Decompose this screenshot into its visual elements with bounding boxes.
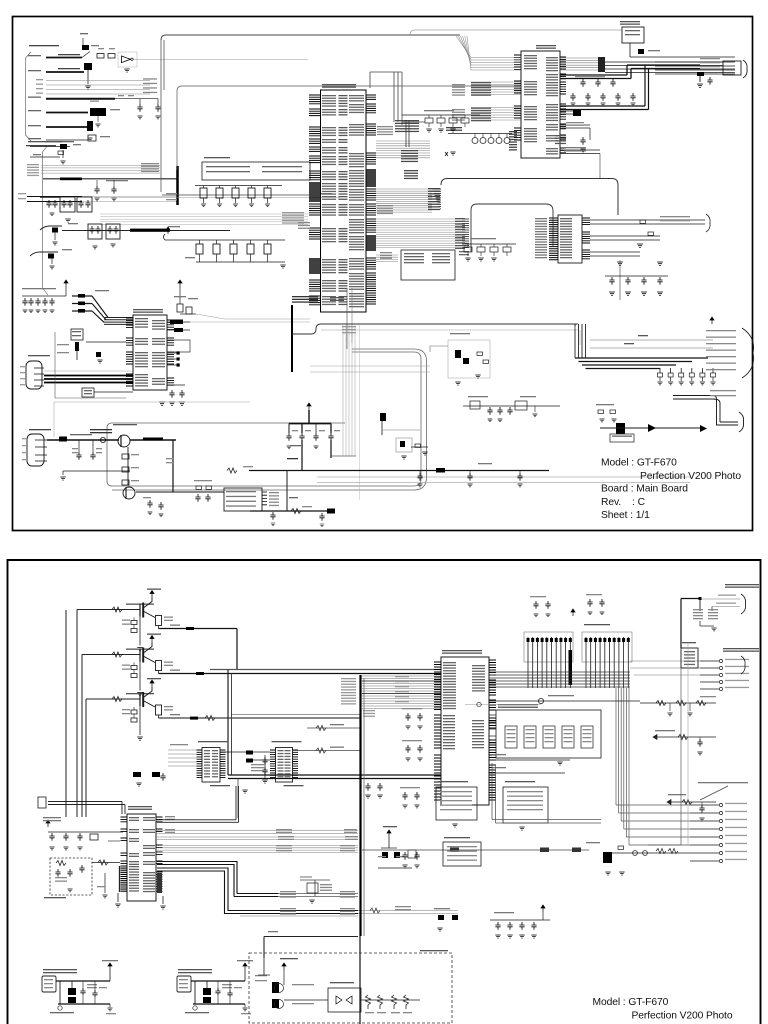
svg-text:Model : GT-F670: Model : GT-F670: [601, 458, 677, 469]
svg-text:Perfection V200 Photo: Perfection V200 Photo: [632, 1010, 733, 1021]
svg-text:Sheet : 1/1: Sheet : 1/1: [601, 510, 650, 521]
svg-text:Rev. : C: Rev. : C: [601, 497, 646, 508]
svg-text:Model : GT-F670: Model : GT-F670: [593, 997, 669, 1008]
svg-text:Perfection V200 Photo: Perfection V200 Photo: [640, 471, 741, 482]
svg-text:Board : Main Board: Board : Main Board: [601, 484, 688, 495]
